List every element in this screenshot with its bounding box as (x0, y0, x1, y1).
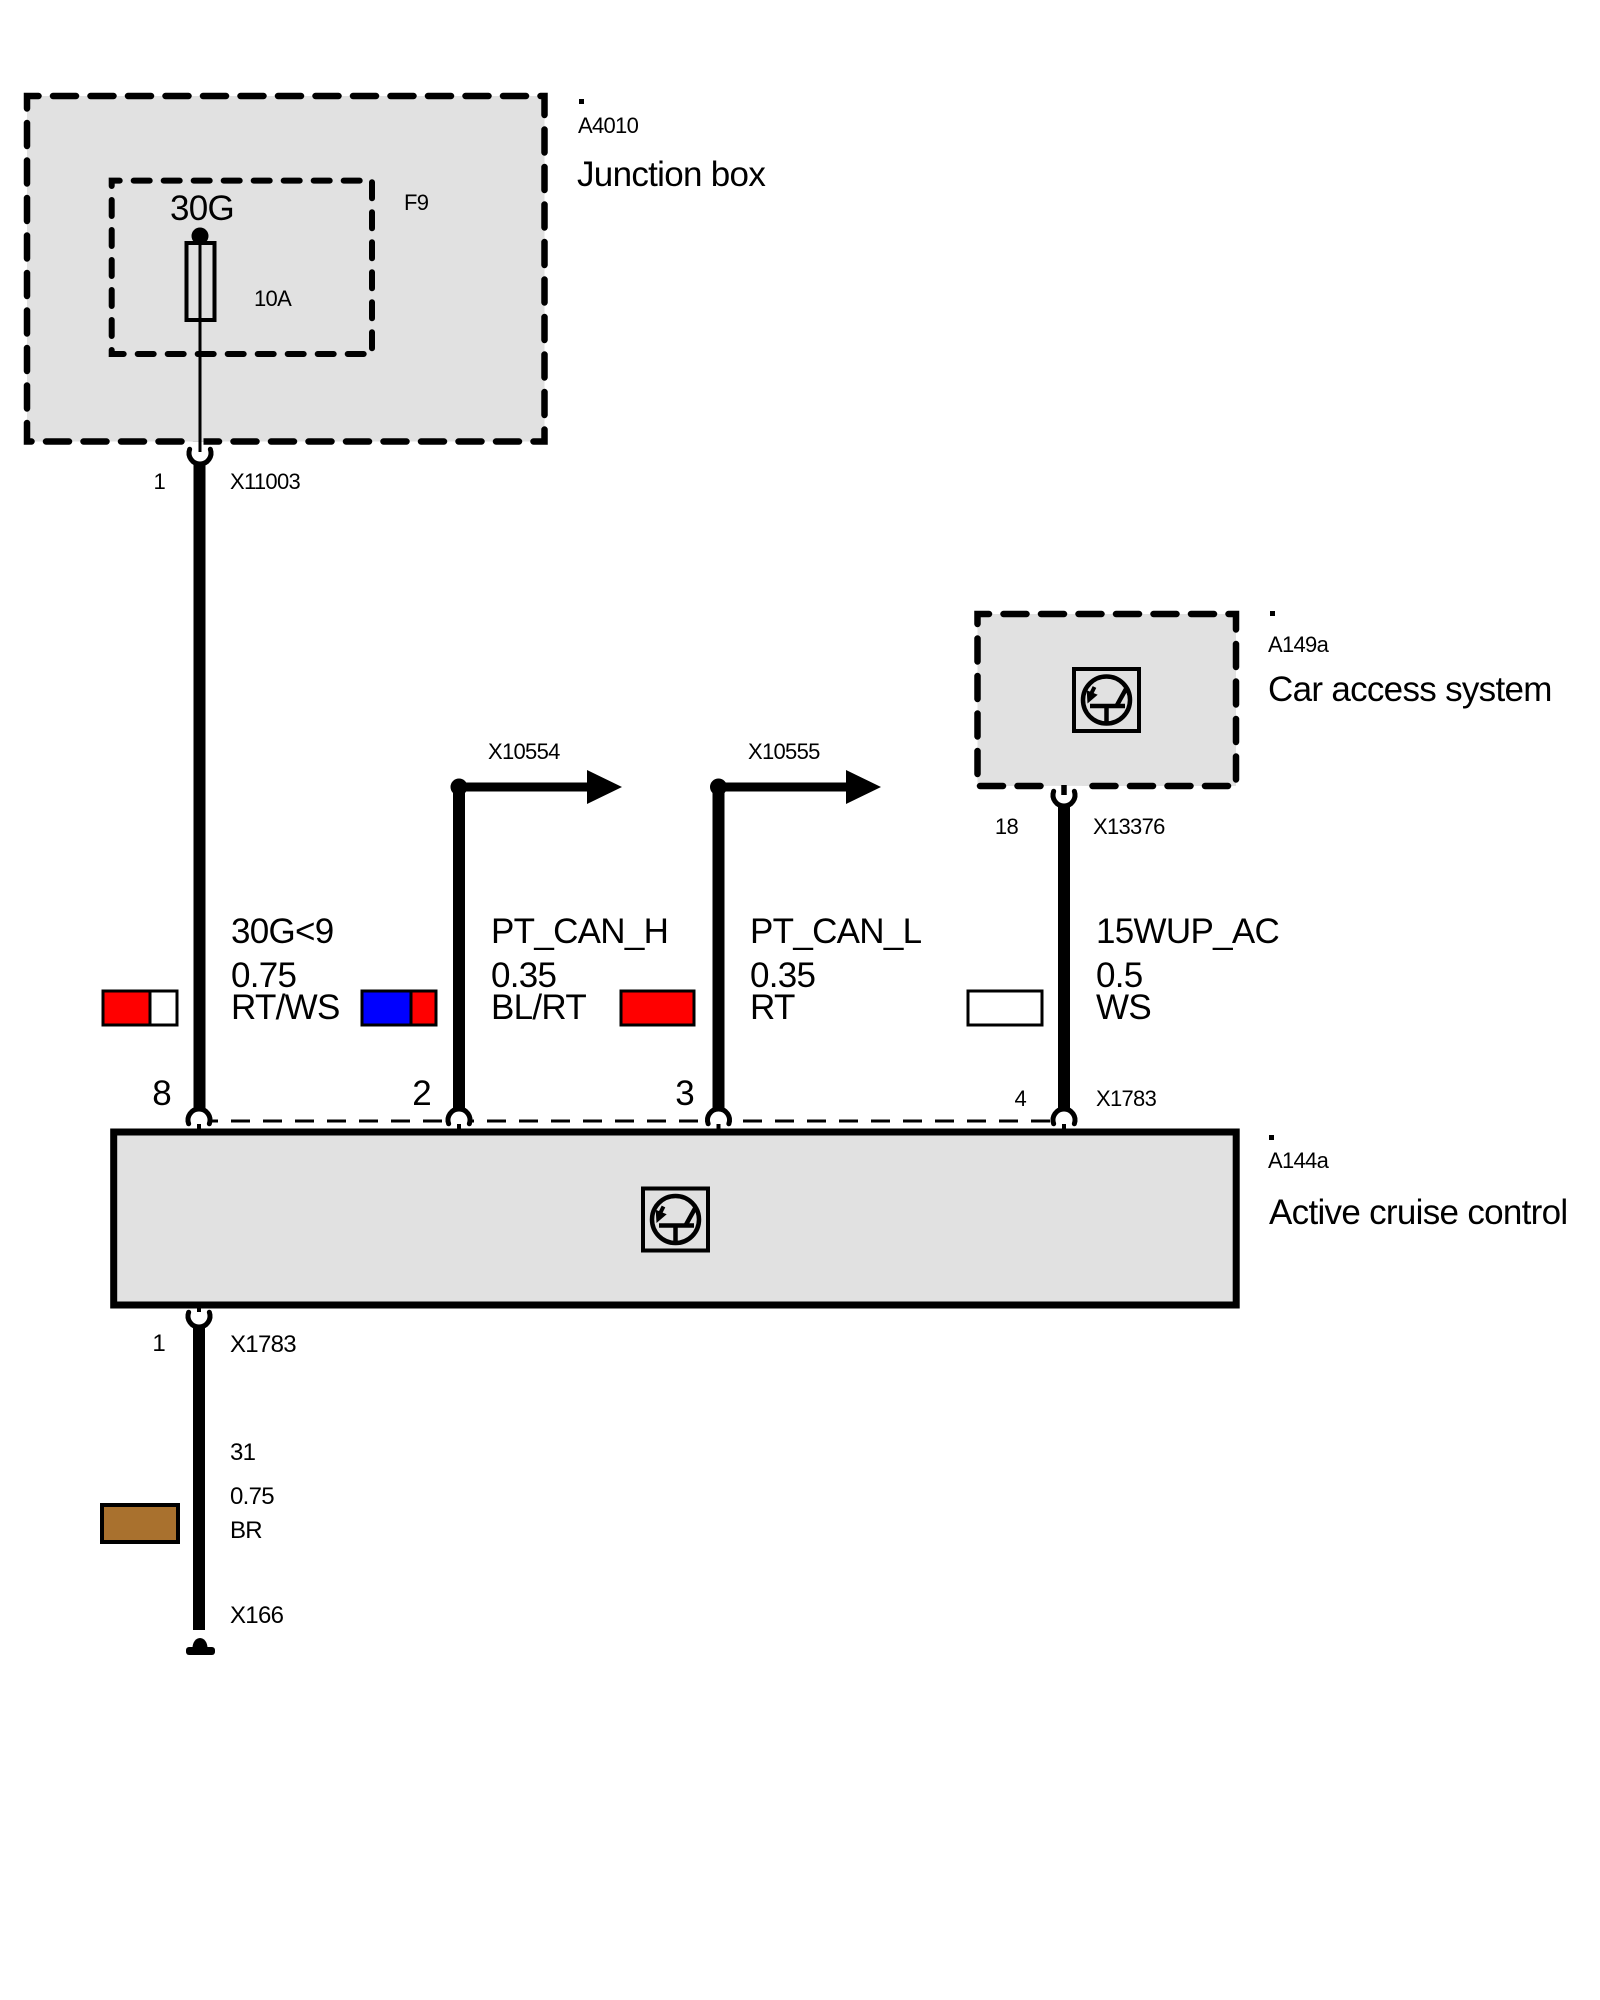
svg-text:F9: F9 (404, 190, 429, 215)
connector strip X1783 dashed line (199, 1120, 1064, 1123)
junction box bottom edge gap at wire (191, 437, 204, 442)
connector arc pin 3 (708, 1109, 730, 1124)
wire 15WUP_AC to ACC pin 4 (1058, 806, 1070, 1108)
fuse F9 10A (192, 228, 209, 245)
wire PT_CAN_H to ACC pin 2 (453, 787, 465, 1108)
svg-text:PT_CAN_L: PT_CAN_L (750, 912, 922, 951)
connector X13376 pin 18 (1053, 791, 1075, 806)
svg-text:15WUP_AC: 15WUP_AC (1096, 912, 1279, 951)
svg-text:X10555: X10555 (748, 739, 820, 764)
svg-text:31: 31 (230, 1439, 256, 1466)
wire color swatch RT/WS (104, 992, 150, 1024)
tick X13376 (1061, 785, 1067, 795)
connector X11003 pin 1 (189, 449, 211, 464)
svg-text:RT: RT (750, 988, 795, 1027)
car access box bottom edge gap at connector (1048, 781, 1083, 786)
svg-text:A4010: A4010 (578, 113, 639, 138)
svg-text:X10554: X10554 (488, 739, 560, 764)
svg-text:0.75: 0.75 (230, 1483, 274, 1510)
wire color swatch BL/RT (363, 992, 411, 1024)
car access system A149a (978, 614, 1237, 786)
svg-text:X166: X166 (230, 1602, 284, 1629)
wire 31 ground (193, 1327, 205, 1630)
arrow to X10554 (459, 783, 588, 792)
svg-text:Junction box: Junction box (577, 155, 766, 194)
svg-text:3: 3 (675, 1074, 694, 1113)
svg-text:30G: 30G (170, 189, 234, 228)
svg-text:X13376: X13376 (1093, 814, 1165, 839)
svg-text:4: 4 (1014, 1086, 1026, 1111)
control unit icon A149a (1074, 669, 1139, 731)
svg-text:A149a: A149a (1268, 632, 1330, 657)
svg-text:WS: WS (1096, 988, 1151, 1027)
label A149a (1270, 611, 1275, 616)
wire PT_CAN_L to ACC pin 3 (713, 787, 725, 1108)
control unit icon A144a (643, 1189, 708, 1251)
wire 30G<9 from X11003 to ACC pin 8 (194, 464, 206, 1108)
connector X1783 pin 1 below ACC (188, 1312, 210, 1327)
svg-text:X1783: X1783 (230, 1331, 296, 1358)
wire fuse internal (199, 236, 202, 452)
svg-text:1: 1 (152, 1330, 165, 1357)
svg-text:18: 18 (995, 814, 1019, 839)
wire color swatch BR (102, 1505, 178, 1542)
svg-text:8: 8 (152, 1074, 171, 1113)
connector arc pin 2 (448, 1109, 470, 1124)
connector arc pin 8 (188, 1109, 210, 1124)
wire color swatch RT (621, 991, 694, 1025)
svg-text:A144a: A144a (1268, 1148, 1330, 1173)
svg-text:10A: 10A (254, 286, 292, 311)
connector ticks (197, 1124, 201, 1133)
svg-text:30G<9: 30G<9 (231, 912, 334, 951)
svg-text:X1783: X1783 (1096, 1086, 1157, 1111)
svg-text:X11003: X11003 (230, 469, 300, 494)
active cruise control A144a (114, 1132, 1237, 1305)
connector arc pin 4 (1053, 1109, 1075, 1124)
svg-text:BR: BR (230, 1517, 262, 1544)
node junction dot X10555 (710, 779, 727, 796)
wire color swatch WS (968, 991, 1042, 1025)
label A144a (1269, 1135, 1274, 1140)
svg-text:Active cruise control: Active cruise control (1269, 1193, 1567, 1232)
junction box A4010 (27, 96, 545, 442)
svg-text:RT/WS: RT/WS (231, 988, 340, 1027)
node junction dot X10554 (451, 779, 468, 796)
svg-text:1: 1 (153, 469, 165, 494)
svg-text:Car access system: Car access system (1268, 670, 1552, 709)
fuse box F9 (112, 181, 372, 354)
svg-text:PT_CAN_H: PT_CAN_H (491, 912, 668, 951)
svg-text:2: 2 (412, 1074, 431, 1113)
label A4010 (579, 99, 584, 104)
arrow to X10555 (719, 783, 848, 792)
svg-text:BL/RT: BL/RT (491, 988, 586, 1027)
